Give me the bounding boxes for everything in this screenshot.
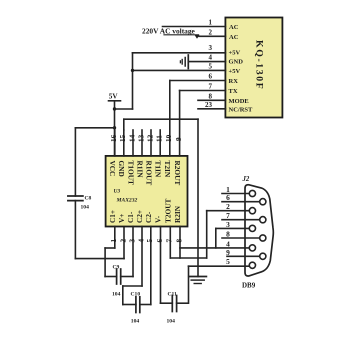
svg-text:GND: GND [117, 161, 126, 177]
svg-text:7: 7 [166, 239, 174, 243]
svg-text:+5V: +5V [229, 49, 241, 56]
wire pin5 stub [150, 227, 152, 305]
wire C11 up to DB9 pin5 row [188, 266, 190, 303]
svg-text:C9: C9 [113, 265, 120, 271]
svg-text:5: 5 [226, 257, 230, 266]
IC U3 MAX232 body [106, 156, 188, 227]
svg-text:220V AC voltage: 220V AC voltage [142, 26, 196, 35]
svg-text:+5V: +5V [229, 68, 241, 75]
svg-text:T2OUT: T2OUT [164, 199, 173, 223]
DB9 pin circles left column 1,2,3,4,5 [249, 190, 255, 196]
wire ground net vertical [197, 119, 199, 276]
node dot B [113, 126, 116, 129]
svg-text:6: 6 [226, 193, 230, 202]
wire C8 bottom rail to pin2 [75, 258, 124, 260]
capacitor C10 [123, 304, 136, 306]
svg-text:11: 11 [156, 135, 164, 142]
wire pin7 T2OUT stub [169, 227, 171, 259]
svg-text:GND: GND [229, 59, 244, 66]
wire pin5 +5V [133, 69, 226, 71]
svg-text:9: 9 [226, 248, 230, 257]
wire pin8 MODE [198, 99, 225, 101]
svg-text:T2IN: T2IN [163, 161, 172, 178]
wire DB9 pin8 [222, 237, 260, 239]
DB9 pin circles right column 6,7,8,9 [260, 199, 266, 205]
wire MAX232 pin15 GND to ground net [124, 118, 198, 120]
svg-text:KQ-130F: KQ-130F [254, 40, 265, 90]
svg-text:T1OUT: T1OUT [126, 161, 135, 185]
capacitor C11 [161, 302, 173, 304]
wire 5V to KQ pins 3/5 [115, 108, 133, 110]
wire pin1 C1+ jog [114, 227, 116, 249]
MAX232 top pin numbers [110, 134, 183, 142]
svg-text:7: 7 [226, 211, 230, 220]
svg-text:4: 4 [209, 53, 213, 61]
svg-text:R1OUT: R1OUT [144, 161, 153, 186]
wire pin6 stub [160, 227, 162, 304]
svg-text:2: 2 [226, 202, 230, 211]
svg-text:12: 12 [146, 134, 154, 142]
svg-text:5: 5 [146, 239, 154, 243]
svg-text:8: 8 [226, 230, 230, 239]
wire KQ pin7 down to MAX232 pin9 [179, 91, 181, 156]
svg-text:104: 104 [167, 319, 176, 325]
svg-text:MAX232: MAX232 [116, 198, 138, 204]
svg-text:14: 14 [128, 134, 136, 142]
wire pin2 AC [199, 35, 225, 37]
svg-text:15: 15 [119, 134, 127, 142]
svg-text:C1-: C1- [126, 211, 135, 223]
svg-text:3: 3 [128, 239, 136, 243]
svg-text:4: 4 [137, 239, 145, 243]
wire DB9 pin3 drop [215, 228, 217, 248]
svg-text:5V: 5V [109, 93, 119, 101]
wire pin23 NC/RST [198, 108, 225, 110]
svg-text:J2: J2 [242, 176, 250, 183]
svg-text:RX: RX [229, 78, 239, 85]
svg-text:DB9: DB9 [242, 282, 256, 290]
svg-text:NC/RST: NC/RST [229, 106, 254, 113]
svg-text:TX: TX [229, 88, 238, 95]
svg-text:T1IN: T1IN [154, 161, 163, 178]
svg-text:V+: V+ [117, 214, 126, 223]
svg-text:R2OUT: R2OUT [173, 161, 182, 186]
svg-text:3: 3 [209, 44, 213, 52]
svg-text:2: 2 [119, 239, 127, 243]
node dot on pin5 row [131, 69, 134, 72]
svg-text:7: 7 [209, 83, 213, 91]
wire DB9 pin9 [227, 255, 260, 257]
svg-text:23: 23 [205, 101, 213, 109]
module U2 KQ-130F body [225, 18, 282, 118]
MAX232 bottom pin numbers [110, 239, 183, 243]
svg-text:6: 6 [209, 73, 213, 81]
svg-text:1: 1 [209, 19, 213, 27]
capacitor C9 [105, 276, 117, 278]
wire DB9 pin2 [207, 210, 250, 212]
svg-text:2: 2 [209, 29, 213, 37]
wire DB9 pin6 [222, 201, 260, 203]
svg-text:8: 8 [209, 93, 213, 101]
svg-text:8: 8 [175, 239, 183, 243]
wire pin6 RX [170, 80, 226, 82]
wire DB9 pin5 / GND [189, 265, 250, 267]
node dot A [113, 107, 116, 110]
svg-text:C2-: C2- [144, 211, 153, 223]
wire pin7 TX [180, 90, 226, 92]
wire pin8 R2IN stub [179, 227, 181, 259]
wire T2OUT bottom run [170, 257, 206, 259]
svg-text:9: 9 [175, 137, 183, 141]
DB9 pin numbers [226, 185, 230, 266]
wire DB9 pin2 drop [206, 211, 208, 258]
MAX232 top inside labels [108, 161, 182, 186]
capacitor C8 wires [74, 128, 76, 196]
capacitor C8 plates [68, 195, 83, 197]
220V AC source arrow line [164, 34, 199, 36]
connector J2 DB9 body [245, 185, 273, 276]
svg-text:10: 10 [165, 134, 173, 142]
svg-text:C10: C10 [131, 292, 141, 298]
wire KQ pin6 down to MAX232 pin10 [169, 81, 171, 156]
svg-text:R2IN: R2IN [173, 205, 182, 223]
svg-text:5: 5 [209, 63, 213, 71]
MAX232 bottom inside labels [108, 199, 182, 223]
wire pin4 stub jog [141, 227, 143, 287]
wire DB9 pin7 [222, 219, 260, 221]
svg-text:104: 104 [81, 205, 90, 211]
ground symbol on pin4 [187, 55, 189, 69]
svg-text:104: 104 [131, 319, 140, 325]
svg-text:MODE: MODE [229, 98, 249, 105]
svg-text:V-: V- [154, 215, 163, 223]
svg-text:13: 13 [137, 134, 145, 142]
svg-text:AC: AC [229, 24, 239, 31]
svg-text:AC: AC [229, 34, 239, 41]
wire pin1 AC [163, 26, 226, 28]
wire R2IN to DB9 pin4 row [180, 247, 249, 249]
svg-text:VCC: VCC [108, 161, 117, 177]
svg-text:U3: U3 [114, 189, 121, 195]
KQ inside labels [229, 24, 254, 113]
wire MAX232 pin2 stub [123, 227, 125, 259]
wire DB9 pin3 [216, 227, 250, 229]
ground symbol near DB9 [189, 276, 207, 278]
wire VCC rail left [75, 127, 114, 129]
svg-text:C11: C11 [168, 292, 178, 298]
svg-text:R1IN: R1IN [135, 161, 144, 179]
wire pin3 stub [132, 227, 134, 277]
wire pin3 +5V [133, 52, 226, 54]
svg-text:1: 1 [110, 239, 118, 243]
svg-text:104: 104 [112, 292, 121, 298]
wire DB9 pin1 [222, 193, 249, 195]
5V power symbol [109, 100, 121, 102]
KQ pin numbers [205, 19, 213, 109]
svg-text:3: 3 [226, 220, 230, 229]
svg-text:6: 6 [156, 239, 164, 243]
svg-text:C1+: C1+ [108, 210, 117, 223]
svg-text:16: 16 [110, 134, 118, 142]
svg-text:C8: C8 [85, 196, 92, 202]
wire pin4 GND [188, 61, 225, 63]
svg-text:C2+: C2+ [135, 210, 144, 223]
MAX232 top pin stubs 16,15,14,13,12,11 [114, 130, 116, 156]
